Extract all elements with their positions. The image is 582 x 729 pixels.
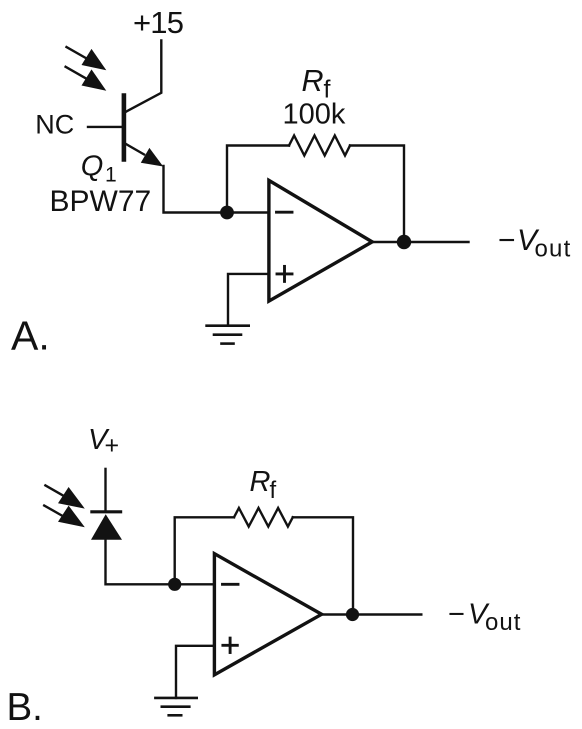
wire collector lead to +15 (126, 41, 161, 112)
wire non-inverting input to ground B (176, 646, 214, 698)
svg-text:out: out (535, 236, 572, 263)
label Rf (302, 64, 331, 104)
svg-text:100k: 100k (283, 99, 346, 131)
op-amp A2 triangle (214, 554, 321, 675)
wire emitter down and to op-amp inverting input (164, 166, 269, 213)
wire output to -Vout B (322, 613, 422, 615)
transistor Q1 emitter line with arrowhead (126, 144, 163, 167)
wire non-inverting input to ground (228, 274, 269, 326)
svg-text:R: R (302, 64, 324, 98)
label -Vout (498, 224, 571, 263)
light arrow 1 into D1 (45, 485, 84, 508)
label V+ supply (88, 424, 119, 460)
ground symbol A (207, 326, 249, 344)
light arrow 2 into Q1 (66, 67, 107, 91)
svg-text:f: f (270, 477, 277, 504)
light arrow 2 into D1 (44, 506, 85, 528)
wire feedback top right and down to output B (293, 517, 353, 614)
svg-text:Q: Q (81, 151, 104, 183)
wire feedback left vertical B (175, 517, 234, 584)
svg-text:+15: +15 (133, 5, 183, 40)
resistor Rf 100k zigzag (289, 136, 350, 156)
svg-text:BPW77: BPW77 (50, 185, 152, 218)
label 100k (283, 99, 346, 131)
op-amp A1 plus sign (277, 266, 292, 281)
light arrow 1 into Q1 (67, 47, 107, 70)
svg-text:−: − (448, 599, 465, 631)
label NC (35, 110, 74, 140)
svg-text:B.: B. (7, 686, 43, 729)
wire cathode lead to V+ (104, 469, 106, 510)
wire feedback top right and down to output (350, 146, 404, 243)
transistor Q1 phototransistor BPW77 body bar (122, 96, 127, 160)
svg-text:+: + (105, 431, 120, 459)
resistor Rf B zigzag (234, 508, 293, 527)
label +15 supply (133, 5, 183, 40)
svg-text:−: − (498, 224, 516, 257)
node junction at inverting input B (168, 578, 181, 591)
svg-text:NC: NC (35, 110, 74, 140)
node junction at inverting input (220, 206, 234, 220)
node junction at output B (346, 608, 359, 621)
label BPW77 (50, 185, 152, 218)
wire feedback left vertical (227, 146, 289, 213)
op-amp A2 minus sign (223, 583, 239, 586)
ground symbol B (155, 698, 196, 715)
photodiode D1 triangle (91, 514, 122, 540)
label Q1 (81, 151, 117, 187)
wire base lead NC (88, 126, 122, 128)
op-amp A1 triangle (269, 180, 372, 301)
wire anode down and to op-amp inverting input (106, 540, 215, 584)
node junction at output (397, 235, 411, 249)
svg-text:R: R (250, 466, 271, 498)
label B. (7, 686, 43, 729)
svg-text:1: 1 (105, 163, 117, 186)
op-amp A1 minus sign (277, 211, 293, 214)
wire output to -Vout (372, 241, 468, 243)
photodiode D1 cathode bar (92, 510, 121, 513)
label Rf B (250, 466, 277, 504)
svg-text:A.: A. (11, 312, 50, 358)
op-amp A2 plus sign (223, 638, 237, 652)
label A. (11, 312, 50, 358)
svg-text:out: out (485, 609, 521, 636)
label -Vout B (448, 599, 521, 637)
